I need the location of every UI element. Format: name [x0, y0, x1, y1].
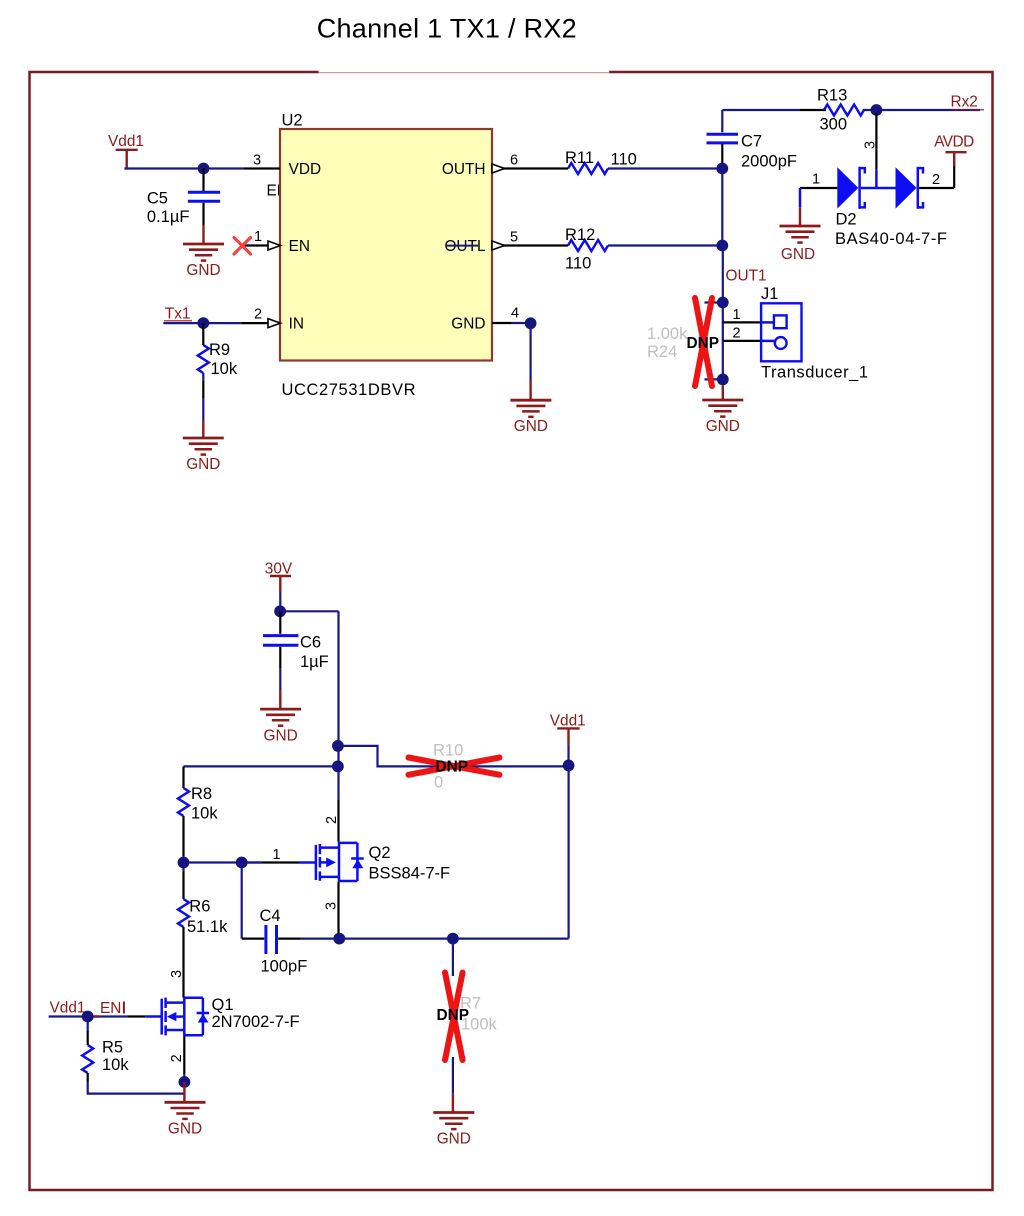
svg-text:GND: GND: [514, 418, 548, 435]
svg-text:GND: GND: [168, 1121, 202, 1138]
svg-text:6: 6: [510, 153, 518, 169]
svg-text:4: 4: [511, 306, 519, 322]
svg-text:0: 0: [434, 774, 443, 792]
svg-text:BSS84-7-F: BSS84-7-F: [369, 865, 451, 883]
svg-text:Transducer_1: Transducer_1: [761, 364, 868, 382]
svg-text:DNP: DNP: [687, 335, 720, 352]
svg-text:110: 110: [611, 151, 637, 169]
svg-text:10k: 10k: [191, 805, 218, 823]
svg-text:1: 1: [812, 172, 820, 188]
svg-text:GND: GND: [186, 262, 220, 279]
svg-text:R5: R5: [102, 1039, 123, 1057]
svg-text:100pF: 100pF: [261, 958, 308, 976]
svg-text:Q2: Q2: [369, 844, 391, 862]
svg-text:OUTH: OUTH: [442, 161, 486, 178]
svg-text:AVDD: AVDD: [934, 134, 974, 151]
svg-text:1µF: 1µF: [300, 653, 329, 671]
svg-text:EN: EN: [100, 1000, 121, 1017]
svg-text:3: 3: [253, 153, 261, 169]
svg-text:Channel 1 TX1 / RX2: Channel 1 TX1 / RX2: [317, 14, 577, 44]
svg-text:GND: GND: [706, 418, 740, 435]
svg-text:10k: 10k: [102, 1056, 129, 1074]
svg-text:C4: C4: [260, 907, 281, 925]
svg-text:Vdd1: Vdd1: [50, 1000, 86, 1017]
svg-text:IN: IN: [289, 316, 304, 333]
svg-text:C5: C5: [147, 190, 168, 208]
svg-text:R9: R9: [209, 341, 230, 359]
svg-text:C7: C7: [741, 133, 762, 151]
svg-text:GND: GND: [781, 246, 815, 263]
svg-text:Vdd1: Vdd1: [550, 713, 586, 730]
svg-text:C6: C6: [300, 634, 321, 652]
svg-text:3: 3: [324, 902, 340, 910]
svg-text:2: 2: [733, 326, 741, 342]
svg-text:0.1µF: 0.1µF: [147, 208, 190, 226]
svg-text:DNP: DNP: [436, 759, 469, 776]
svg-text:3: 3: [863, 141, 879, 149]
svg-text:Tx1: Tx1: [165, 306, 191, 323]
svg-text:2: 2: [324, 816, 340, 824]
svg-text:U2: U2: [282, 112, 303, 130]
svg-text:2: 2: [932, 172, 940, 188]
svg-text:J1: J1: [761, 285, 778, 303]
svg-text:Rx2: Rx2: [951, 94, 978, 111]
svg-text:UCC27531DBVR: UCC27531DBVR: [282, 381, 416, 399]
svg-text:5: 5: [510, 230, 518, 246]
svg-text:51.1k: 51.1k: [187, 918, 228, 936]
svg-text:Vdd1: Vdd1: [108, 133, 144, 150]
svg-text:1: 1: [273, 847, 281, 863]
svg-text:2: 2: [169, 1054, 185, 1062]
svg-text:2000pF: 2000pF: [741, 153, 797, 171]
svg-text:R13: R13: [817, 87, 847, 105]
svg-text:1: 1: [254, 229, 262, 245]
svg-text:EN: EN: [289, 238, 310, 255]
svg-text:R24: R24: [647, 343, 677, 361]
svg-text:R12: R12: [565, 226, 595, 244]
svg-text:3: 3: [169, 970, 185, 978]
svg-text:OUT1: OUT1: [726, 268, 767, 285]
svg-text:R6: R6: [189, 898, 210, 916]
svg-text:GND: GND: [186, 456, 220, 473]
svg-text:300: 300: [820, 116, 848, 134]
svg-text:1: 1: [733, 307, 741, 323]
svg-text:R11: R11: [565, 149, 594, 167]
svg-text:2N7002-7-F: 2N7002-7-F: [212, 1013, 300, 1031]
svg-text:R10: R10: [433, 742, 463, 760]
svg-text:R8: R8: [191, 785, 212, 803]
svg-text:D2: D2: [836, 211, 857, 229]
svg-text:VDD: VDD: [289, 161, 322, 178]
svg-text:BAS40-04-7-F: BAS40-04-7-F: [835, 230, 947, 248]
svg-text:GND: GND: [437, 1131, 471, 1148]
svg-text:DNP: DNP: [437, 1007, 470, 1024]
svg-text:2: 2: [254, 307, 262, 323]
svg-text:GND: GND: [451, 316, 485, 333]
svg-text:1.00k: 1.00k: [647, 325, 688, 343]
svg-text:Q1: Q1: [212, 996, 234, 1014]
svg-text:10k: 10k: [211, 360, 238, 378]
svg-text:GND: GND: [263, 727, 297, 744]
svg-text:110: 110: [565, 255, 591, 273]
